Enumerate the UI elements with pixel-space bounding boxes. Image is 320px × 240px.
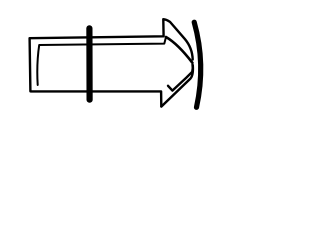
- inner top diagonal pass to tip: [166, 37, 192, 63]
- hand-drawn arrow icon: outer contour (left edge, top edge, base spike, outer top diagonal to tip): [30, 19, 193, 91]
- outer bottom diagonal of arrowhead (corner up to tip): [161, 66, 193, 107]
- arrowhead base bottom vertical and box bottom edge: [31, 91, 162, 106]
- inner second-pass contour: left edge, top edge, up-wiggle: [37, 37, 166, 85]
- end bar at arrow tip: [194, 22, 201, 107]
- crossbar through tail box: [86, 28, 92, 99]
- inner bottom diagonal pass (hook start at box bottom edge, up to tip): [168, 65, 193, 91]
